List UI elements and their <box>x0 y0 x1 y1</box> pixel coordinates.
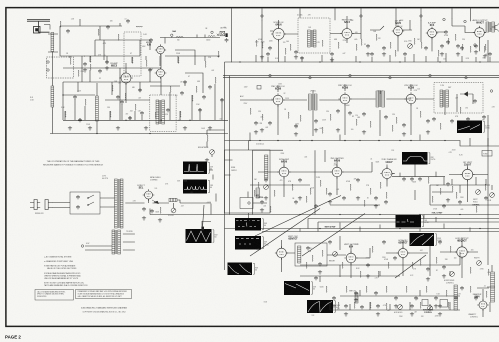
wire sound row horizontals <box>256 20 495 62</box>
capacitor C227 <box>444 30 448 34</box>
capacitor C301 <box>268 121 272 125</box>
resistor R524 <box>406 286 407 293</box>
capacitor C102 <box>83 62 87 66</box>
resistor R86 <box>386 303 387 310</box>
resistor R83 <box>338 302 339 309</box>
resistor R218 <box>322 40 323 46</box>
capacitor C501 <box>318 262 322 266</box>
resistor R85 <box>370 302 371 309</box>
capacitor C140 <box>140 111 144 115</box>
resistor R128 <box>98 29 99 35</box>
capacitor C535 <box>328 240 332 244</box>
filter capacitor C50 <box>76 195 80 199</box>
wire mid controls <box>207 130 225 157</box>
vert coil bottom <box>355 293 358 303</box>
capacitor C117 <box>208 85 212 89</box>
capacitor C221 <box>370 52 374 56</box>
capacitor C303 <box>294 124 298 128</box>
volume control R26 <box>408 44 413 49</box>
capacitor C125 <box>198 108 202 112</box>
resistor R428 <box>432 196 433 202</box>
resistor R314 <box>300 115 301 122</box>
damper tube V18 <box>477 299 489 311</box>
capacitor C317 <box>348 111 352 115</box>
oscillator dashed box <box>124 32 141 76</box>
resistor R304 <box>330 114 331 121</box>
terminal scatter <box>239 61 240 62</box>
capacitor C138 <box>120 100 124 104</box>
capacitor C515 <box>314 276 318 280</box>
ground IF G2 <box>336 128 340 132</box>
capacitor C421 <box>314 204 318 208</box>
wire balun <box>48 34 58 134</box>
line cord plug <box>30 200 52 210</box>
resistor R16 <box>125 93 126 100</box>
horizontal osc tube V16 <box>397 247 410 260</box>
resistor R122 <box>110 111 111 118</box>
ground IF G3 <box>362 130 366 134</box>
capacitor C427 <box>384 200 388 204</box>
ground sync G6 <box>374 204 378 208</box>
capacitor C523 <box>394 296 398 300</box>
resistor R103 <box>90 56 91 62</box>
capacitor C95 <box>225 38 229 42</box>
waveform scope C vertical sawtooth <box>186 229 214 243</box>
resistor R306 <box>356 119 357 126</box>
ground sound G0 <box>260 55 264 59</box>
resistor R84 <box>354 302 355 309</box>
audio output transformer T4 <box>486 22 489 32</box>
resistor R130 <box>118 34 119 40</box>
terminal audio 1 <box>464 20 466 22</box>
resistor R420 <box>306 196 307 202</box>
resistor R402 <box>274 190 275 196</box>
resistor R324 <box>460 107 461 114</box>
capacitor C97 <box>460 46 464 50</box>
coil L3 <box>96 96 99 121</box>
capacitor C213 <box>456 44 460 48</box>
on-off switch S1 <box>88 195 94 205</box>
resistor R87 <box>420 302 421 309</box>
waveform scope J hor sweep <box>410 233 437 246</box>
ground tuner G1 <box>88 126 92 130</box>
first vertical tube V13 <box>461 168 475 182</box>
ground bottom G1 <box>366 274 370 278</box>
resistor R126 <box>60 21 61 28</box>
resistor R534 <box>322 250 323 256</box>
resistor R540 <box>450 246 451 252</box>
capacitor C80 <box>344 304 348 308</box>
resistor R210 <box>421 42 422 48</box>
ground bottom G3 <box>442 274 446 278</box>
trap coil L13 <box>208 36 215 37</box>
wire focus pot <box>173 203 175 208</box>
resistor R95 <box>455 34 456 40</box>
resistor R530 <box>470 286 471 293</box>
resistor R124 <box>180 111 181 118</box>
resistor R205 <box>361 39 362 45</box>
capacitor C119 <box>220 98 224 102</box>
ground bottom G0 <box>318 270 322 274</box>
resistor R137 <box>85 99 86 106</box>
resistor R526 <box>426 286 427 293</box>
IF output transformer T2 <box>156 100 159 124</box>
capacitor C521 <box>374 291 378 295</box>
peaking coil L12 <box>176 36 183 37</box>
resistor R56 <box>160 207 161 213</box>
resistor R415 <box>485 184 486 190</box>
ground IF G6 <box>254 130 258 134</box>
ground sound G7 <box>474 50 478 54</box>
capacitor C315 <box>314 119 318 123</box>
resistor R430 <box>452 186 453 192</box>
resistor R536 <box>372 246 373 252</box>
capacitor C225 <box>424 46 428 50</box>
capacitor C104 <box>105 60 109 64</box>
resistor R131 <box>170 86 171 93</box>
ground bottom G7 <box>354 298 358 302</box>
resistor R503 <box>360 271 361 278</box>
resistor R120 <box>65 111 66 118</box>
resistor R308 <box>396 117 397 124</box>
capacitor C217 <box>300 56 304 60</box>
wire mains <box>52 198 115 208</box>
capacitor C539 <box>438 240 442 244</box>
resistor R518 <box>346 286 347 293</box>
audio amp tube V6 <box>426 27 438 39</box>
ground IF G4 <box>402 132 406 136</box>
capacitor C525 <box>414 296 418 300</box>
resistor R228 <box>462 44 463 50</box>
waveform scope I hor sync <box>396 215 424 228</box>
resistor R107 <box>132 57 133 63</box>
blocking transformer T10 <box>298 246 301 263</box>
resistor R405 <box>310 188 311 194</box>
capacitor C541 <box>460 286 464 290</box>
selenium rectifier CR2 <box>143 189 155 201</box>
ground mid <box>205 158 209 162</box>
resistor R514 <box>306 262 307 269</box>
resistor R500 <box>312 255 313 262</box>
resistor R513 <box>488 269 489 276</box>
ground tuner G4 <box>183 126 187 130</box>
capacitor C132 <box>180 91 184 95</box>
sync phase inv tube V19 <box>380 167 394 181</box>
node IF bus <box>277 140 278 141</box>
electrolytic C53 <box>150 209 154 213</box>
capacitor C121 <box>78 118 82 122</box>
vertical osc block box <box>295 243 327 266</box>
wire sync frame <box>253 150 326 215</box>
capacitor C429 <box>442 204 446 208</box>
capacitor C305 <box>336 109 340 113</box>
wire sound row verticals <box>262 16 488 62</box>
wire damper leads <box>487 265 495 312</box>
waveform scope H phase det <box>402 152 430 165</box>
speaker LS1 <box>495 23 499 32</box>
ground sync G1 <box>298 196 302 200</box>
resistor R326 <box>476 123 477 130</box>
ground power 1 <box>142 216 146 220</box>
terminal sound row <box>261 15 263 17</box>
capacitor C313 <box>254 121 258 125</box>
resistor R424 <box>364 200 365 206</box>
capacitor C323 <box>450 119 454 123</box>
scan noise overlay <box>0 0 1 1</box>
pot hor hold R81 <box>398 305 403 310</box>
capacitor C201 <box>268 46 272 50</box>
resistor R220 <box>356 44 357 50</box>
test point circle <box>211 31 213 33</box>
capacitor C83 <box>410 304 414 308</box>
wire deflection diagonal 1 <box>250 209 320 257</box>
wire B+ stubs from top rail <box>232 8 471 62</box>
resistor R118 <box>218 51 219 57</box>
ground sync G4 <box>446 198 450 202</box>
capacitor C90 <box>402 177 406 181</box>
terminal audio 3 <box>443 18 445 20</box>
ground IF G5 <box>426 130 430 134</box>
resistor R312 <box>250 108 251 115</box>
resistor R17 <box>155 112 156 119</box>
wire video IF row <box>240 84 488 146</box>
capacitor C417 <box>260 200 264 204</box>
mixer tube V2A <box>155 44 166 55</box>
resistor R506 <box>388 262 389 269</box>
resistor R412 <box>440 188 441 194</box>
wire vert osc grid row <box>392 172 445 177</box>
resistor R133 <box>196 86 197 93</box>
capacitor C413 <box>446 182 450 186</box>
agc pot <box>264 185 269 190</box>
resistor R532 <box>486 291 487 298</box>
capacitor C307 <box>362 112 366 116</box>
resistor R100 <box>70 58 71 64</box>
tuner input terminals <box>47 61 49 63</box>
wire L6 corner <box>308 219 318 232</box>
resistor R320 <box>392 125 393 131</box>
capacitor C401 <box>264 178 268 182</box>
capacitor C123 <box>128 116 132 120</box>
antenna terminal block <box>34 27 41 34</box>
capacitor C136 <box>73 95 77 99</box>
capacitor C219 <box>330 52 334 56</box>
wire tuner verticals lower <box>65 56 222 120</box>
resistor R230 <box>484 46 485 52</box>
capacitor C127 <box>66 29 70 33</box>
power transformer T8 <box>115 179 118 228</box>
3rd video IF tube V9 <box>338 92 351 105</box>
vert hold control R50 <box>476 190 481 195</box>
resistor R207 <box>376 34 377 40</box>
audio output tube V7 <box>473 26 486 39</box>
hor drive control R68 <box>450 272 455 277</box>
resistor R520 <box>366 286 367 293</box>
capacitor C404 <box>298 178 302 182</box>
capacitor C211 <box>440 44 444 48</box>
resistor R135 <box>215 77 216 84</box>
capacitor C431 <box>458 200 462 204</box>
ion trap magnet <box>240 198 253 209</box>
first audio tube V5 <box>392 25 404 37</box>
kinescope box <box>225 150 271 213</box>
ground sound G5 <box>456 52 460 56</box>
wire yoke diagonal 4 <box>395 255 426 278</box>
ground sound G1 <box>294 55 298 59</box>
capacitor C327 <box>482 115 486 119</box>
ground bottom G2 <box>426 277 430 281</box>
detector transformer T7 <box>440 90 443 107</box>
wire bus L10 y265 <box>300 264 460 266</box>
capacitor C206 <box>366 44 370 48</box>
resistor R216 <box>285 48 286 54</box>
horizontal output tube V17 <box>455 245 469 259</box>
capacitor C96 <box>446 40 450 44</box>
resistor R111 <box>136 26 142 27</box>
resistor R406 <box>320 180 321 186</box>
discriminator transformer T3 <box>308 30 311 47</box>
4th video IF tube V10 <box>404 92 417 105</box>
note box right <box>76 290 132 299</box>
capacitor C507 <box>393 256 397 260</box>
capacitor C407 <box>328 192 332 196</box>
resistor R113 <box>178 57 179 63</box>
capacitor C309 <box>402 123 406 127</box>
ground tuner G2 <box>116 126 120 130</box>
filter choke L10 <box>169 198 177 201</box>
capacitor C527 <box>434 296 438 300</box>
ground tuner G6 <box>83 68 87 72</box>
ground sound G3 <box>382 52 386 56</box>
boxed terminal label <box>482 151 492 157</box>
electrolytic C52 <box>142 207 146 211</box>
ground bottom G4 <box>332 304 336 308</box>
resistor R400 <box>258 182 259 188</box>
wire bus L8 y228.5 <box>225 228 499 230</box>
capacitor C17 <box>166 108 170 112</box>
resistor R139 <box>135 104 136 111</box>
wire sound takeoff chain <box>160 35 220 44</box>
capacitor C419 <box>294 200 298 204</box>
diode mark <box>217 34 219 36</box>
capacitor C325 <box>466 117 470 121</box>
ground tuner G7 <box>105 66 109 70</box>
wire B+ risers <box>225 62 230 270</box>
takeoff chip <box>225 33 227 37</box>
resistor R411 <box>380 182 381 188</box>
capacitor C229 <box>474 44 478 48</box>
capacitor C215 <box>266 52 270 56</box>
brightness control R75 <box>207 135 208 141</box>
capacitor C84 <box>438 304 442 308</box>
resistor R115 <box>192 95 193 102</box>
ground bottom extra 1 <box>344 312 348 316</box>
height control R61 <box>333 252 338 257</box>
note box left <box>35 290 74 301</box>
video detector dashed box <box>434 83 483 114</box>
balun transformer T1 <box>51 33 54 52</box>
resistor R200 <box>262 42 263 48</box>
wire bus L7 y222 <box>318 221 499 223</box>
resistor R109 <box>146 60 147 67</box>
tuner shield box <box>47 57 74 78</box>
pot hor lock R82 <box>428 306 433 311</box>
deflection yoke winding <box>265 155 268 179</box>
ground bottom G6 <box>434 304 438 308</box>
resistor R418 <box>270 206 271 212</box>
resistor R96 <box>470 46 471 52</box>
resistor R222 <box>395 50 396 56</box>
capacitor C517 <box>332 296 336 300</box>
resistor R202 <box>290 44 291 50</box>
resistor R502 <box>342 262 343 269</box>
coil L2 <box>51 86 54 107</box>
resistor R510 <box>436 257 437 264</box>
IF output transformer box <box>150 95 176 131</box>
resistor R101 <box>78 70 79 77</box>
resistor R316 <box>322 127 323 133</box>
resistor R116 <box>205 61 206 68</box>
horizontal output transformer T11 <box>491 272 495 302</box>
capacitor C114 <box>183 80 187 84</box>
vertical output tube V15 <box>344 251 357 264</box>
resistor R204 <box>338 42 339 48</box>
contrast pot R76 <box>210 150 215 155</box>
capacitor C110 <box>126 19 130 23</box>
resistor R416 <box>254 190 255 196</box>
ground bottom extra 3 <box>410 312 414 316</box>
wire sync row <box>250 158 488 205</box>
vert lin pot R80 <box>490 193 495 198</box>
sync separator tube V11 <box>277 165 290 178</box>
waveform scope D composite <box>235 218 263 231</box>
wire rf plate <box>126 50 203 103</box>
sound discriminator dashed box <box>298 18 330 53</box>
capacitor C108 <box>138 88 142 92</box>
wire filament <box>85 234 135 250</box>
oscillator tube V2B <box>155 67 167 79</box>
resistor R522 <box>386 286 387 293</box>
ground sound G2 <box>366 52 370 56</box>
waveform scope A vertical sync pulse <box>183 162 209 175</box>
ground bottom G5 <box>394 304 398 308</box>
ground sync G0 <box>264 196 268 200</box>
capacitor C537 <box>382 240 386 244</box>
wire tuner core extras <box>63 40 160 120</box>
wire bus L3 y77.6 <box>223 77 499 79</box>
ground IF G0 <box>260 128 264 132</box>
wire right vertical x488 <box>487 115 489 265</box>
capacitor C81 <box>360 305 364 309</box>
crystal diode CR1 <box>460 92 473 96</box>
wire tuner interconnects <box>60 19 220 56</box>
capacitor C91 <box>410 177 414 181</box>
ground sync G3 <box>356 196 360 200</box>
resistor R310 <box>420 111 421 118</box>
capacitor C433 <box>484 196 488 200</box>
sound IF amp tube V3 <box>271 27 286 42</box>
antenna terminal box <box>220 31 225 36</box>
wire bottom extra rails <box>300 215 470 311</box>
capacitor C423 <box>342 196 346 200</box>
ground sync G5 <box>260 208 264 212</box>
capacitor C82 <box>376 304 380 308</box>
line filter box <box>70 192 100 214</box>
wire bus L4 y140.5 <box>225 141 499 147</box>
resistor R403 <box>292 184 293 190</box>
waveform scope F vert drive <box>284 281 312 295</box>
resistor R318 <box>370 121 371 128</box>
